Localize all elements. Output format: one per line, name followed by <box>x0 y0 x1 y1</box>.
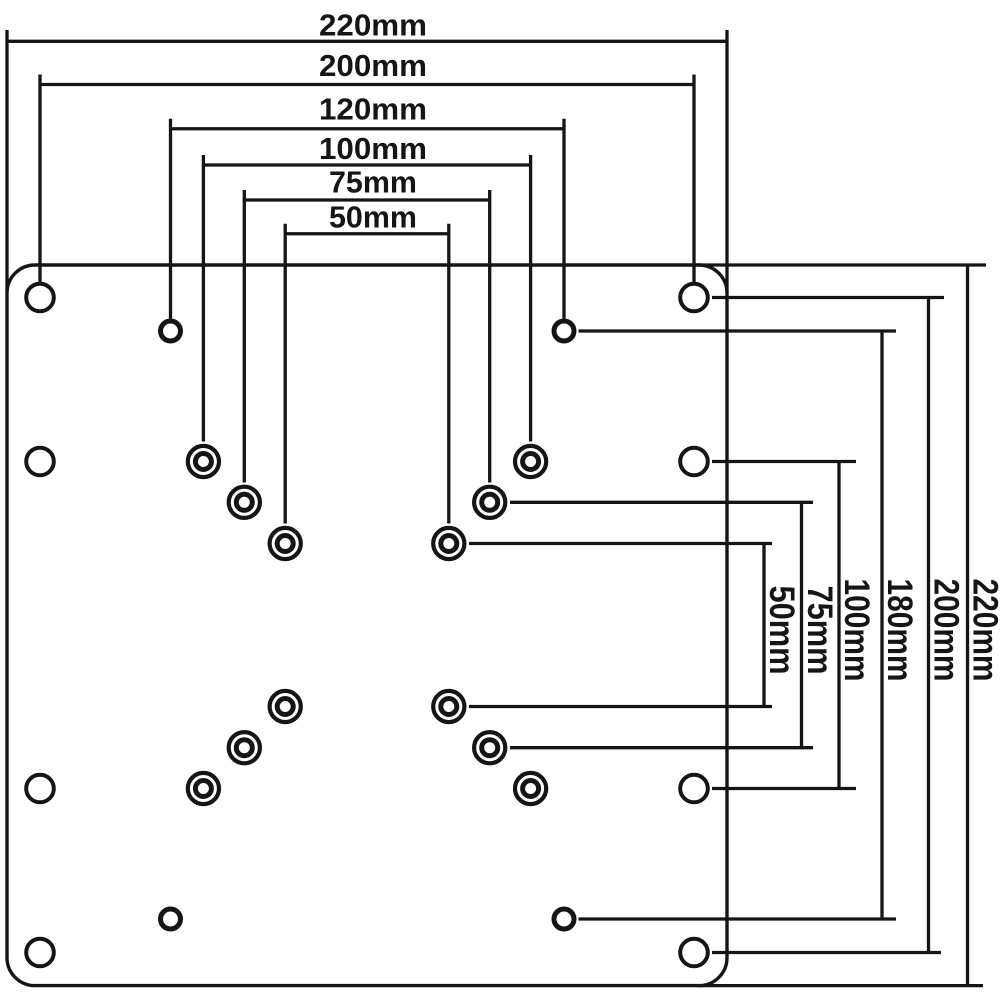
dimension 50mm right: top extension tick <box>469 542 772 545</box>
dimension 75mm top: right extension tick <box>488 190 491 483</box>
dimension 100mm right: bottom extension tick <box>712 787 856 790</box>
svg-text:100mm: 100mm <box>837 579 876 682</box>
small hole bottom-left (120x180) <box>161 909 181 929</box>
dimension 100mm top: right extension tick <box>529 155 532 442</box>
ringed hole VESA75 top-right <box>474 487 505 518</box>
svg-text:75mm: 75mm <box>329 166 417 200</box>
dimension 120mm top: line <box>171 127 565 130</box>
dimension 220mm top: line <box>7 40 727 43</box>
ringed hole VESA50 top-left <box>270 528 301 559</box>
dimension 200mm top: line <box>40 83 694 86</box>
ringed hole VESA100 top-right <box>515 446 546 477</box>
dimension 75mm top: left extension tick <box>243 190 246 483</box>
svg-text:200mm: 200mm <box>319 49 427 83</box>
svg-text:50mm: 50mm <box>762 586 801 675</box>
ringed hole VESA75 bottom-left <box>229 732 260 763</box>
dimension 50mm right: line <box>762 544 765 707</box>
dimension 180mm right: line <box>880 331 883 919</box>
svg-text:220mm: 220mm <box>966 579 1000 682</box>
svg-text:100mm: 100mm <box>319 132 427 166</box>
hole right edge lower (200x100) <box>680 775 708 803</box>
svg-text:180mm: 180mm <box>880 579 919 682</box>
dimension 100mm top: left extension tick <box>202 155 205 442</box>
dimension 75mm right: line <box>800 502 803 747</box>
svg-text:50mm: 50mm <box>329 201 417 235</box>
hole left edge upper (200x100) <box>26 448 54 476</box>
small hole top-left (120x180) <box>161 321 181 341</box>
ringed hole VESA100 bottom-left <box>188 773 219 804</box>
dimension 100mm top: line <box>203 163 530 166</box>
dimension 50mm top: left extension tick <box>284 224 287 524</box>
dimension 120mm top: right extension tick <box>562 119 565 319</box>
dimension 200mm right: bottom extension tick <box>712 951 941 954</box>
dimension 50mm right: bottom extension tick <box>469 705 772 708</box>
dimension 50mm top: right extension tick <box>447 224 450 524</box>
ringed hole VESA75 bottom-right <box>474 732 505 763</box>
svg-text:75mm: 75mm <box>800 586 839 675</box>
svg-text:120mm: 120mm <box>319 93 427 127</box>
plate outline (VESA adapter plate) <box>7 265 727 986</box>
dimension 200mm right: top extension tick <box>712 296 944 299</box>
small hole top-right (120x180) <box>554 321 574 341</box>
ringed hole VESA50 top-right <box>433 528 464 559</box>
dimension 180mm right: bottom extension tick <box>579 917 897 920</box>
svg-text:220mm: 220mm <box>319 9 427 43</box>
ringed hole VESA50 bottom-right <box>433 691 464 722</box>
dimension 75mm right: top extension tick <box>510 501 813 504</box>
dimension 200mm top: left extension tick <box>38 75 41 283</box>
hole corner top-left (200x200) <box>26 284 54 312</box>
ringed hole VESA75 top-left <box>229 487 260 518</box>
dimension 220mm top: left extension tick <box>5 30 8 292</box>
dimension 100mm right: line <box>837 462 840 789</box>
dimension 200mm right: line <box>927 298 930 953</box>
dimension 120mm top: left extension tick <box>169 119 172 319</box>
dimension 200mm top: right extension tick <box>692 75 695 283</box>
dimension 75mm right: bottom extension tick <box>510 746 813 749</box>
ringed hole VESA100 bottom-right <box>515 773 546 804</box>
dimension 100mm right: top extension tick <box>712 460 856 463</box>
ringed hole VESA100 top-left <box>188 446 219 477</box>
hole corner bottom-right (200x200) <box>680 939 708 967</box>
dimension 50mm top: line <box>285 232 449 235</box>
dimension 220mm top: right extension tick <box>725 30 728 292</box>
hole corner bottom-left (200x200) <box>26 939 54 967</box>
dimension 180mm right: top extension tick <box>579 329 897 332</box>
hole corner top-right (200x200) <box>680 284 708 312</box>
dimension 220mm right: top extension tick <box>697 263 986 266</box>
dimension 75mm top: line <box>244 198 489 201</box>
hole left edge lower (200x100) <box>26 775 54 803</box>
hole right edge upper (200x100) <box>680 448 708 476</box>
ringed hole VESA50 bottom-left <box>270 691 301 722</box>
dimension 220mm right: bottom extension tick <box>697 984 983 987</box>
dimension 220mm right: line <box>966 265 969 986</box>
svg-text:200mm: 200mm <box>927 579 966 682</box>
small hole bottom-right (120x180) <box>554 909 574 929</box>
